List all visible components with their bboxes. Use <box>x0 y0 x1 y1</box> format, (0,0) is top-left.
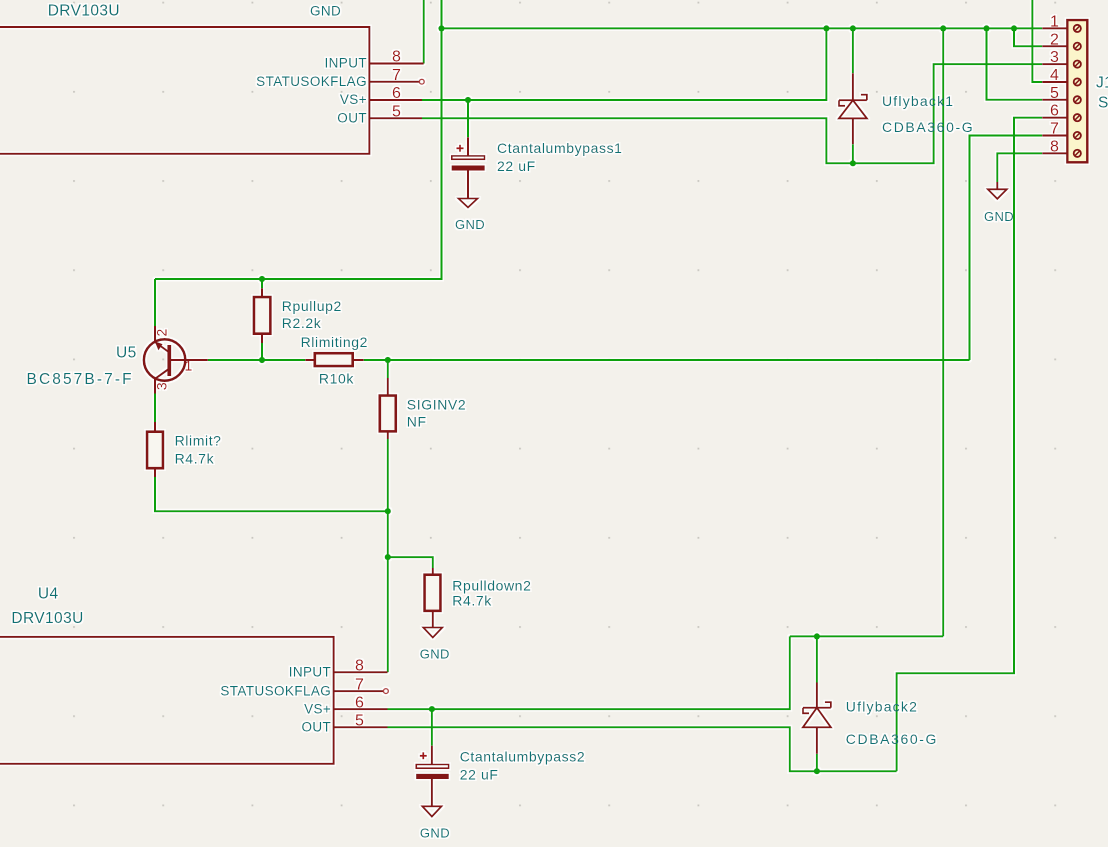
pin 8 INPUT of U4 <box>289 658 388 680</box>
wire: SIGINV2 top lead wire <box>387 360 389 378</box>
svg-text:GND: GND <box>455 217 485 232</box>
svg-text:Rlimiting2: Rlimiting2 <box>301 334 368 350</box>
svg-text:VS+: VS+ <box>304 701 331 716</box>
J1 pin 5 <box>1042 85 1081 104</box>
svg-text:7: 7 <box>355 676 364 693</box>
node: junction 468,100 (cap1 tap) <box>465 97 471 103</box>
svg-text:22 uF: 22 uF <box>497 158 536 174</box>
svg-text:2: 2 <box>153 329 169 337</box>
wire: long vertical x=943.2 bus to diode2 top <box>942 28 944 636</box>
diode Uflyback2 (schottky, cathode up) <box>803 683 831 754</box>
wire: pin8 riser of U3 top IC <box>423 0 425 64</box>
wire: Rlimit? bottom to horizontal y=511.2 <box>155 477 388 511</box>
svg-text:6: 6 <box>392 85 401 102</box>
svg-text:INPUT: INPUT <box>325 56 368 71</box>
J1 pin 7 <box>1042 121 1081 140</box>
svg-text:U5: U5 <box>116 344 137 361</box>
svg-text:Rpullup2: Rpullup2 <box>282 298 342 314</box>
resistor SIGINV2 <box>380 378 396 439</box>
wire: diode2 anode stub <box>816 754 818 771</box>
svg-text:8: 8 <box>1050 138 1059 155</box>
resistor Rpullup2 <box>254 288 271 343</box>
diode Uflyback1 (schottky, cathode up) <box>839 73 867 144</box>
svg-text:6: 6 <box>1050 103 1059 120</box>
J1 pin 1 <box>1042 13 1081 32</box>
node: junction 826.4,28.4 <box>823 25 829 31</box>
node: junction 986.5,28.4 <box>983 25 989 31</box>
wire: U4 OUT row down to diode2 bottom net <box>388 727 897 771</box>
resistor Rpulldown2 <box>425 568 441 628</box>
J1 pin 2 <box>1042 31 1081 50</box>
node: junction 387.8,511.2 <box>385 508 391 514</box>
svg-text:Scr: Scr <box>1098 95 1108 112</box>
svg-text:GND: GND <box>984 209 1014 224</box>
node: junction 387.8,557.1 <box>385 554 391 560</box>
node: junction 1014,28.4 <box>1011 25 1017 31</box>
svg-text:Uflyback1: Uflyback1 <box>882 93 954 109</box>
ground symbol below cap2 <box>422 806 441 816</box>
svg-text:1: 1 <box>1050 13 1059 30</box>
capacitor Ctantalumbypass2 <box>416 746 449 807</box>
svg-text:NF: NF <box>407 413 427 429</box>
svg-text:3: 3 <box>153 382 169 390</box>
pin 6 VS+ of U4 <box>304 694 387 716</box>
node: junction 816.9,771.2 <box>814 768 820 774</box>
svg-text:DRV103U: DRV103U <box>48 3 120 20</box>
wire: long vertical x=441.5 from top edge to corner y=279 <box>155 0 442 279</box>
svg-text:DRV103U: DRV103U <box>11 610 83 627</box>
wire: diode2 cathode stub <box>816 636 818 682</box>
svg-text:OUT: OUT <box>337 111 367 126</box>
wire: cap1 top lead <box>467 100 469 137</box>
svg-text:BC857B-7-F: BC857B-7-F <box>27 371 134 388</box>
svg-text:SIGINV2: SIGINV2 <box>407 396 466 412</box>
svg-text:INPUT: INPUT <box>289 665 332 680</box>
resistor Rlimiting2 <box>305 353 363 366</box>
node: junction 262,360 <box>259 357 265 363</box>
ground symbol at J1 pin8 <box>988 182 1007 199</box>
svg-text:7: 7 <box>392 67 401 84</box>
op-amp U3 DRV103U top IC body <box>0 27 369 154</box>
svg-text:VS+: VS+ <box>340 92 367 107</box>
svg-text:STATUSOKFLAG: STATUSOKFLAG <box>256 74 367 89</box>
svg-text:GND: GND <box>420 826 450 841</box>
wire: Rpullup2 bottom lead wire <box>261 343 263 360</box>
svg-text:R4.7k: R4.7k <box>452 593 492 609</box>
svg-text:CDBA360-G: CDBA360-G <box>882 119 974 135</box>
node: junction 943.2,28.4 <box>940 25 946 31</box>
svg-text:22 uF: 22 uF <box>460 766 499 782</box>
svg-text:2: 2 <box>1050 31 1059 48</box>
wire: J1 pin8 to GND <box>997 153 1042 182</box>
wire: base row y=360 right of Rlimiting2 out to x=969.5 <box>364 359 970 361</box>
wire: top power bus y=28.4 <box>442 27 1043 29</box>
ground symbol below cap1 <box>459 199 478 208</box>
svg-text:STATUSOKFLAG: STATUSOKFLAG <box>220 683 331 698</box>
pin 8 INPUT of U3 <box>325 49 424 71</box>
svg-text:8: 8 <box>392 49 401 66</box>
connector J1 body <box>1067 20 1087 162</box>
node: junction 431.9,709.1 <box>429 706 435 712</box>
pin 5 OUT of U3 <box>337 104 422 126</box>
svg-text:Ctantalumbypass2: Ctantalumbypass2 <box>460 749 586 765</box>
svg-text:4: 4 <box>1050 67 1059 84</box>
op-amp U4 DRV103U IC body <box>0 637 334 764</box>
wire: transistor collector down to Rlimit? <box>154 394 156 423</box>
wire: Rpullup2 top lead wire <box>261 279 263 288</box>
wire: base row y=360 left of Rlimiting2 <box>208 359 305 361</box>
node: junction 816.9,636.4 <box>814 633 820 639</box>
svg-text:R2.2k: R2.2k <box>282 315 322 331</box>
wire: J1 pin4 riser to top edge <box>1032 0 1042 82</box>
svg-text:Ctantalumbypass1: Ctantalumbypass1 <box>497 140 623 156</box>
svg-text:1: 1 <box>185 358 193 374</box>
svg-text:6: 6 <box>355 694 364 711</box>
ground symbol below Rpulldown2 <box>423 628 442 638</box>
resistor Rlimit? <box>147 422 163 477</box>
node: junction on bus at 441.5,28.4 <box>438 25 444 31</box>
pin 7 STATUSOKFLAG of U3 (unconnected circle) <box>256 67 424 89</box>
svg-text:U4: U4 <box>38 585 59 602</box>
svg-text:5: 5 <box>392 104 401 121</box>
svg-text:8: 8 <box>355 658 364 675</box>
svg-text:Uflyback2: Uflyback2 <box>846 699 918 715</box>
svg-text:5: 5 <box>355 712 364 729</box>
J1 pin 3 <box>1042 49 1081 68</box>
capacitor Ctantalumbypass1 <box>452 137 485 198</box>
node: junction 262,279 <box>259 276 265 282</box>
svg-text:7: 7 <box>1050 121 1059 138</box>
pin 7 STATUSOKFLAG of U4 (unconnected circle) <box>220 676 388 698</box>
wire: J1 pin6 descender to diode2 anode net <box>897 118 1043 772</box>
wire: diode1 anode stub <box>852 144 854 163</box>
wire: J1 pin5 riser <box>987 28 1043 99</box>
wire: diode1 cathode stub to bus <box>852 28 854 73</box>
svg-text:R10k: R10k <box>319 370 354 386</box>
svg-text:GND: GND <box>420 647 450 662</box>
pin 6 VS+ of U3 <box>340 85 422 107</box>
svg-text:Rpulldown2: Rpulldown2 <box>452 577 531 593</box>
transistor U5 BC857B (PNP) <box>144 326 208 394</box>
svg-text:J1: J1 <box>1096 75 1108 92</box>
wire: branch to Rpulldown2 <box>388 557 433 568</box>
pin 5 OUT of U4 <box>301 712 387 734</box>
svg-text:5: 5 <box>1050 85 1059 102</box>
node: junction 387.8,360 <box>385 357 391 363</box>
node: junction 852.9,28.4 <box>850 25 856 31</box>
svg-text:3: 3 <box>1050 49 1059 66</box>
svg-text:GND: GND <box>310 4 341 19</box>
svg-text:CDBA360-G: CDBA360-G <box>846 731 938 747</box>
wire: diode2 top horizontal y=636.4 <box>790 635 943 637</box>
svg-text:R4.7k: R4.7k <box>175 451 215 467</box>
J1 pin 4 <box>1042 67 1081 86</box>
wire: transistor emitter top wire <box>154 279 156 326</box>
J1 pin 8 <box>1042 138 1081 157</box>
wire: J1 pin7 descender to Rlimiting2 output <box>970 136 1043 361</box>
wire: SIGINV2 bottom long vertical down to U4 pin8 <box>387 439 389 672</box>
wire: J1 pin2 riser <box>1014 28 1042 46</box>
svg-text:OUT: OUT <box>301 719 331 734</box>
wire: OUT net from U3 pin5 down around to J1 pin3 <box>422 64 1042 163</box>
node: junction 852.9,163.3 diode1 anode <box>850 160 856 166</box>
svg-text:Rlimit?: Rlimit? <box>175 432 222 448</box>
J1 pin 6 <box>1042 103 1081 122</box>
wire: cap2 top lead <box>431 709 433 746</box>
wire: VS+ net from U3 pin6 to bus riser x=826.4 <box>422 28 826 100</box>
wire: U4 VS+ row to diode2 top net <box>388 636 790 709</box>
